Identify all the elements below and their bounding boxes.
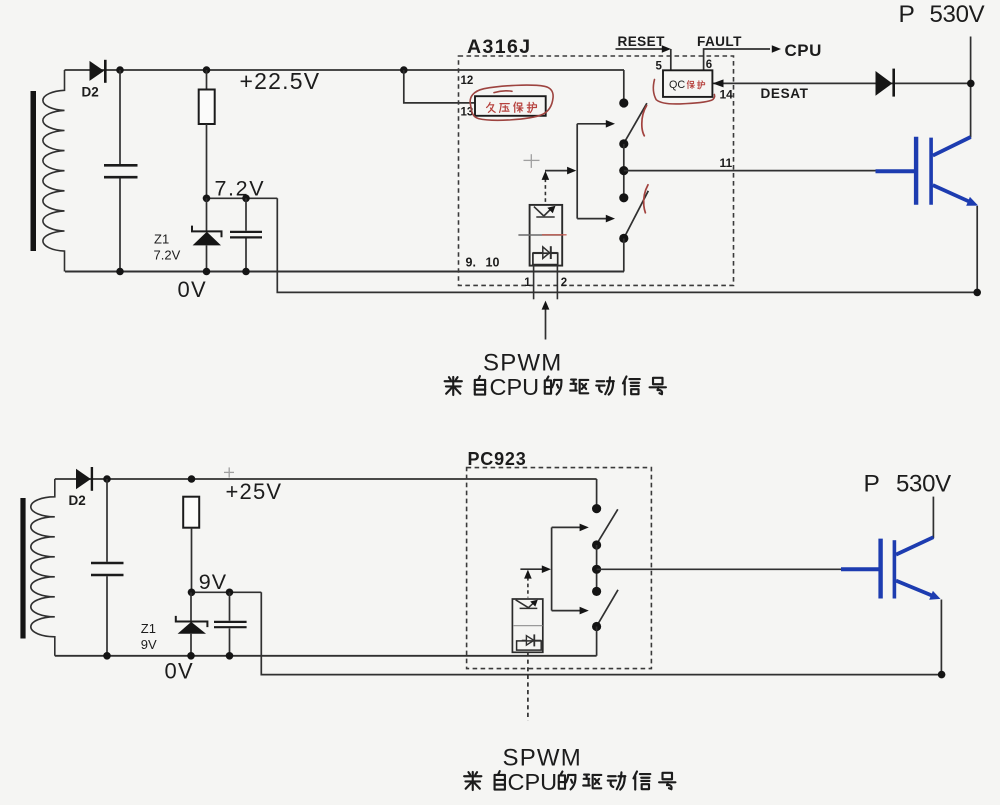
svg-text:14: 14 xyxy=(720,88,734,102)
pin stub 1 xyxy=(533,265,535,300)
phototransistor symbol xyxy=(534,206,556,217)
driver bus vertical (bottom) xyxy=(551,527,553,610)
node xyxy=(592,587,601,596)
svg-text:SPWM: SPWM xyxy=(503,745,582,772)
wire 9V node xyxy=(192,591,262,593)
wire top rail +22.5V xyxy=(65,69,625,71)
wire xyxy=(623,144,625,198)
IGBT Q2 (blue) xyxy=(841,537,933,598)
wire 0V rail (bottom) xyxy=(55,655,597,657)
node xyxy=(592,622,601,631)
junction xyxy=(226,652,234,660)
opto output arrow to bus (bottom) xyxy=(520,565,551,573)
IC U1 A316J dashed box xyxy=(459,56,734,285)
junction node A xyxy=(400,66,408,74)
junction xyxy=(188,589,196,597)
wire pin13 branch xyxy=(404,70,475,103)
svg-text:530V: 530V xyxy=(896,470,951,497)
svg-text:10: 10 xyxy=(486,256,500,270)
node xyxy=(619,193,628,202)
label 欠压保护 xyxy=(487,102,537,113)
wire emitter return (9V to IGBT emitter) xyxy=(261,592,941,674)
diode D2 (bottom) xyxy=(76,467,92,491)
junction xyxy=(226,589,234,597)
svg-text:QC: QC xyxy=(669,79,685,91)
IC U4 PC923 dashed box xyxy=(467,468,652,669)
switch S3 (high side) xyxy=(598,509,618,542)
divider line (bottom) xyxy=(513,625,543,627)
opto output arrow to bus xyxy=(545,167,576,175)
UVLO block (undervoltage protection) xyxy=(475,96,546,116)
zener diode Z1 (bottom) xyxy=(176,592,208,656)
driver bus vertical xyxy=(576,124,578,219)
junction xyxy=(973,289,981,297)
IGBT Q2 emitter arrowhead xyxy=(929,591,940,600)
transformer T1 core xyxy=(31,91,37,251)
wire to 0V rail xyxy=(596,627,598,656)
svg-text:DESAT: DESAT xyxy=(761,86,809,101)
IGBT Q1 (blue) xyxy=(876,137,971,205)
junction xyxy=(938,671,946,679)
svg-text:6: 6 xyxy=(706,59,712,71)
wire emitter return (7.2V to IGBT emitter) xyxy=(277,198,977,292)
svg-text:CPU: CPU xyxy=(785,41,822,60)
optocoupler U5 body xyxy=(512,599,542,652)
svg-text:9.: 9. xyxy=(466,256,476,270)
svg-text:CPU: CPU xyxy=(490,374,540,400)
wire DESAT with arrow into pin 14 xyxy=(713,79,971,87)
node output xyxy=(592,565,601,574)
svg-text:PC923: PC923 xyxy=(468,449,527,469)
svg-text:Z1: Z1 xyxy=(141,621,156,636)
wire pin 11 output to gate xyxy=(624,170,876,172)
diode D2 xyxy=(90,60,106,83)
svg-text:0V: 0V xyxy=(165,659,195,684)
SPWM dashed input line xyxy=(527,652,529,721)
svg-text:RESET: RESET xyxy=(618,34,666,49)
zener diode Z1 xyxy=(192,198,222,271)
wire emitter down xyxy=(976,206,978,292)
wire collector feed (bottom) xyxy=(932,497,934,538)
label P 530V xyxy=(899,1,985,28)
wire FAULT to CPU with arrow xyxy=(704,45,781,70)
arrow to S4 xyxy=(552,607,589,615)
label QC保护 xyxy=(669,79,705,91)
svg-text:FAULT: FAULT xyxy=(697,34,742,49)
wire xyxy=(596,545,598,591)
dashed coupling arrow up (bottom) xyxy=(524,570,532,598)
wire top rail +25V xyxy=(55,478,597,480)
wire collector feed xyxy=(970,37,972,138)
photodiode (bottom) xyxy=(517,634,542,650)
node xyxy=(592,540,601,549)
capacitor C2 xyxy=(230,198,262,271)
resistor R2 xyxy=(183,497,199,593)
svg-text:1: 1 xyxy=(524,277,531,289)
junction xyxy=(187,652,195,660)
svg-text:SPWM: SPWM xyxy=(483,350,562,377)
node xyxy=(619,98,628,107)
junction xyxy=(203,268,211,276)
annotation scribble around OC block xyxy=(653,80,714,104)
node xyxy=(592,504,601,513)
junction xyxy=(116,66,124,74)
OC protection block xyxy=(663,70,712,97)
junction xyxy=(103,475,111,483)
arrow to S2 xyxy=(577,215,615,223)
switch chain wire from rail xyxy=(623,70,625,103)
diode D3 (DESAT blocking) xyxy=(876,69,894,97)
optocoupler U3 body xyxy=(530,205,563,266)
label 来自CPU的驱动信号 (bottom) xyxy=(464,769,675,795)
wire 0V rail xyxy=(65,271,624,273)
annotation red tick xyxy=(642,106,647,136)
svg-text:2: 2 xyxy=(561,277,567,289)
junction xyxy=(103,652,111,660)
node output xyxy=(619,166,628,175)
wire 7.2V node xyxy=(207,197,278,199)
junction xyxy=(203,195,211,203)
svg-text:12: 12 xyxy=(461,75,474,87)
junction xyxy=(188,475,196,483)
switch S4 (low side) xyxy=(598,590,618,625)
transformer T1 winding xyxy=(43,70,65,272)
svg-text:9V: 9V xyxy=(199,570,227,594)
svg-text:D2: D2 xyxy=(69,493,86,508)
junction xyxy=(242,195,250,203)
capacitor C1 xyxy=(104,70,138,272)
svg-text:530V: 530V xyxy=(930,1,985,28)
switch S1 (high side) xyxy=(625,103,647,141)
crosshair mark xyxy=(524,154,540,168)
junction xyxy=(242,268,250,276)
annotation red circle scribble xyxy=(470,85,553,120)
arrow to S3 xyxy=(552,524,589,532)
svg-text:+22.5V: +22.5V xyxy=(240,68,321,94)
label 来自CPU的驱动信号 xyxy=(445,374,666,400)
svg-text:5: 5 xyxy=(656,61,663,73)
svg-text:P: P xyxy=(899,1,915,28)
junction xyxy=(116,268,124,276)
IGBT Q1 emitter arrowhead xyxy=(966,197,978,206)
svg-text:+25V: +25V xyxy=(226,479,283,504)
svg-text:P: P xyxy=(864,470,880,497)
svg-text:11: 11 xyxy=(720,156,733,170)
phototransistor symbol (bottom) xyxy=(516,600,538,609)
switch S2 (low side) xyxy=(625,191,649,237)
SPWM input arrow xyxy=(542,301,550,340)
switch chain wire from rail xyxy=(596,479,598,509)
svg-text:D2: D2 xyxy=(82,85,99,100)
svg-text:9V: 9V xyxy=(141,637,157,652)
junction xyxy=(203,66,211,74)
capacitor C3 xyxy=(91,479,124,656)
wire to 0V rail xyxy=(623,238,625,271)
wire RESET with arrow xyxy=(616,45,672,70)
arrow to S1 xyxy=(577,120,615,128)
resistor R1 xyxy=(199,70,215,198)
pin stub 2 xyxy=(556,265,558,300)
svg-text:Z1: Z1 xyxy=(154,232,169,247)
wire output to gate xyxy=(597,568,842,570)
svg-text:CPU: CPU xyxy=(508,769,558,795)
svg-text:7.2V: 7.2V xyxy=(215,177,266,201)
transformer T2 core xyxy=(20,498,25,639)
capacitor C4 xyxy=(214,592,247,656)
annotation red tick xyxy=(644,185,648,213)
svg-text:7.2V: 7.2V xyxy=(154,248,181,263)
photodiode (LED input) xyxy=(533,246,558,264)
dashed coupling arrow up xyxy=(542,171,550,204)
transformer T2 winding xyxy=(31,479,55,656)
svg-text:0V: 0V xyxy=(178,277,208,302)
node xyxy=(619,139,628,148)
wire emitter down (bottom) xyxy=(940,600,942,675)
red divider overlay xyxy=(542,234,567,236)
svg-text:A316J: A316J xyxy=(467,36,531,58)
divider line xyxy=(518,234,561,236)
crosshair mark xyxy=(224,467,234,477)
junction DESAT/collector xyxy=(967,80,975,88)
label P 530V (bottom) xyxy=(864,470,952,497)
node xyxy=(619,234,628,243)
